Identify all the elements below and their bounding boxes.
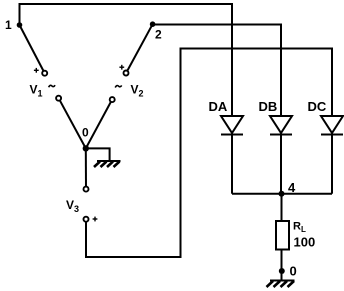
wire node 4 to resistor RL: [281, 194, 283, 221]
ground at node 0: [94, 161, 121, 167]
svg-text:4: 4: [288, 180, 296, 195]
source V3 terminal circles: [84, 187, 89, 222]
tilde V2: [115, 85, 122, 87]
wire diode DA cathode to bus: [231, 135, 233, 194]
wire node 0 to ground: [86, 148, 110, 160]
node 1 junction dot: [17, 22, 23, 28]
tilde V1: [49, 85, 56, 87]
node 0 output junction dot: [279, 268, 285, 274]
svg-text:0: 0: [290, 264, 297, 279]
resistor RL 100: [276, 221, 289, 250]
svg-text:100: 100: [294, 235, 316, 250]
wire V2 - terminal to node 0: [86, 102, 111, 149]
svg-text:V3: V3: [66, 198, 79, 214]
wire diode DB cathode to node 4: [280, 135, 282, 194]
svg-text:1: 1: [5, 18, 12, 32]
plus sign V3: [93, 217, 98, 222]
ground at node 0 (output): [267, 281, 295, 288]
wire node1 to V1 + terminal: [20, 25, 44, 71]
wire node 0 down to V3 top terminal: [85, 148, 87, 187]
diode DB: [270, 116, 292, 135]
wire node2 to V2 + terminal: [127, 24, 152, 71]
wire V3 return to diode DC anode: [86, 49, 332, 258]
plus sign V2: [119, 65, 124, 70]
svg-text:DC: DC: [308, 99, 327, 114]
node 2 junction dot: [150, 21, 156, 27]
wire V1 - terminal to node 0: [60, 100, 86, 148]
svg-text:0: 0: [82, 126, 89, 140]
node 4 junction dot: [279, 191, 285, 197]
wire cathode bus (node 4 rail): [232, 193, 332, 195]
wire node1 to diode DA anode (top rail): [20, 4, 233, 116]
svg-text:2: 2: [155, 28, 162, 42]
diode DA: [221, 116, 243, 135]
wire node2 to diode DB anode: [153, 25, 281, 117]
svg-text:V2: V2: [131, 83, 144, 99]
source V1 terminal circles: [42, 71, 61, 101]
svg-text:V1: V1: [30, 83, 43, 99]
wire resistor RL to node 0 ground: [281, 250, 283, 281]
svg-text:RL: RL: [293, 221, 306, 235]
node 0 junction dot: [83, 145, 89, 151]
source V2 terminal circles: [110, 71, 129, 103]
diode DC: [321, 116, 343, 135]
svg-text:DA: DA: [209, 99, 228, 114]
plus sign V1: [34, 68, 39, 73]
svg-text:DB: DB: [259, 99, 278, 114]
wire diode DC cathode to bus: [331, 135, 333, 194]
